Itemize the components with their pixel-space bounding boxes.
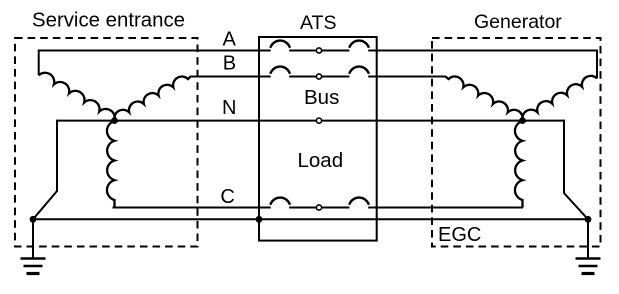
svg-text:C: C xyxy=(220,186,234,208)
svg-text:Bus: Bus xyxy=(304,86,339,109)
ATS contact arc B left xyxy=(270,67,290,74)
generator wye neutral junction dot xyxy=(519,117,526,124)
service wye neutral junction dot xyxy=(111,117,118,124)
svg-text:Load: Load xyxy=(298,149,344,172)
service transformer winding B (right coil) xyxy=(114,76,190,120)
wire phase A drop to service winding xyxy=(38,50,40,76)
generator winding A (right coil) xyxy=(522,76,597,121)
wire phase A xyxy=(39,50,597,52)
ATS pole circle C xyxy=(316,205,321,210)
generator ground junction dot xyxy=(585,216,592,223)
ATS contact arc C left xyxy=(270,198,290,205)
service ground stem xyxy=(32,219,34,257)
svg-text:Generator: Generator xyxy=(474,11,562,33)
ATS contact arc B right xyxy=(349,67,369,74)
svg-text:ATS: ATS xyxy=(300,12,336,34)
ATS contact arc A right xyxy=(349,41,369,48)
wire EGC xyxy=(33,218,588,220)
service ground symbol xyxy=(21,257,46,260)
service neutral bonding jumper xyxy=(33,120,57,220)
generator neutral bonding jumper xyxy=(564,120,588,220)
generator ground symbol xyxy=(576,257,601,260)
generator enclosure (dashed box) xyxy=(432,38,601,247)
ATS contact arc C right xyxy=(349,198,369,205)
generator winding C (vertical coil) xyxy=(515,121,523,208)
wire neutral N xyxy=(57,120,564,122)
ATS enclosure (solid box) xyxy=(259,37,377,241)
service ground junction dot xyxy=(30,216,37,223)
wire phase A drop to generator winding xyxy=(596,50,598,79)
wire phase C xyxy=(113,207,524,209)
ATS enclosure bond junction dot on EGC xyxy=(256,216,263,223)
ATS contact arc A left xyxy=(270,41,290,48)
service transformer winding C (vertical coil) xyxy=(107,121,115,208)
service transformer winding A (left coil) xyxy=(39,73,115,121)
svg-text:B: B xyxy=(223,53,236,75)
wire phase B xyxy=(190,76,446,78)
ATS pole circle N xyxy=(316,118,321,123)
svg-text:Service entrance: Service entrance xyxy=(32,10,185,32)
svg-text:N: N xyxy=(222,97,236,119)
ATS pole circle B xyxy=(316,74,321,79)
generator winding B (left coil) xyxy=(446,76,523,120)
ATS pole circle A xyxy=(316,48,321,53)
generator ground stem xyxy=(587,219,589,257)
svg-text:A: A xyxy=(223,28,237,50)
service entrance enclosure (dashed box) xyxy=(15,38,198,247)
svg-text:EGC: EGC xyxy=(438,224,481,246)
